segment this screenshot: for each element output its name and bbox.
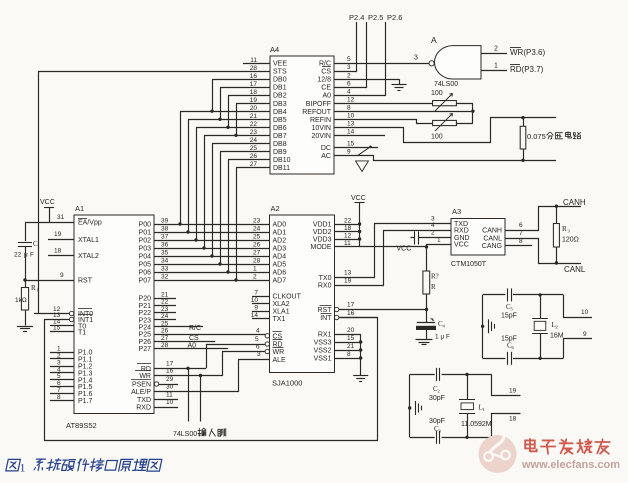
svg-text:R/C: R/C [189, 325, 201, 332]
svg-text:3: 3 [257, 351, 261, 358]
svg-text:35: 35 [161, 250, 169, 257]
svg-text:19: 19 [54, 231, 62, 238]
svg-text:DB9: DB9 [273, 149, 287, 156]
svg-text:30pF: 30pF [429, 395, 445, 402]
svg-text:1kΩ: 1kΩ [15, 297, 27, 304]
svg-text:13: 13 [347, 120, 355, 127]
svg-text:A4: A4 [270, 45, 279, 54]
svg-text:VSS1: VSS1 [314, 356, 332, 363]
svg-text:22: 22 [14, 252, 22, 259]
svg-text:24: 24 [253, 226, 261, 233]
svg-text:21: 21 [161, 292, 169, 299]
svg-text:VDD3: VDD3 [313, 237, 332, 244]
svg-text:P1.1: P1.1 [78, 357, 93, 364]
svg-text:27: 27 [253, 250, 261, 257]
svg-text:XTAL2: XTAL2 [78, 253, 99, 260]
svg-text:VEE: VEE [273, 61, 287, 68]
svg-text:22: 22 [161, 299, 169, 306]
svg-text:DB11: DB11 [273, 165, 290, 172]
svg-text:VSS3: VSS3 [314, 340, 332, 347]
svg-text:P2.4: P2.4 [349, 13, 364, 22]
svg-text:29: 29 [166, 376, 174, 383]
svg-text:4: 4 [256, 328, 260, 335]
svg-text:CS: CS [321, 69, 331, 76]
svg-text:6: 6 [256, 343, 260, 350]
svg-text:18: 18 [509, 416, 517, 423]
svg-text:VDD1: VDD1 [313, 222, 332, 229]
svg-text:XLA2: XLA2 [273, 301, 290, 308]
svg-text:20VIN: 20VIN [312, 133, 331, 140]
svg-text:16M: 16M [550, 333, 564, 340]
svg-text:38: 38 [161, 226, 169, 233]
svg-text:STS: STS [273, 69, 287, 76]
svg-text:100: 100 [431, 134, 443, 141]
svg-text:T1: T1 [78, 329, 86, 336]
svg-text:VCC: VCC [351, 195, 366, 202]
svg-text:17: 17 [166, 360, 174, 367]
svg-text:100: 100 [431, 90, 443, 97]
svg-text:VCC: VCC [454, 242, 469, 249]
svg-text:DB7: DB7 [273, 133, 287, 140]
svg-text:9: 9 [347, 149, 351, 156]
svg-text:AD0: AD0 [273, 222, 287, 229]
svg-text:34: 34 [161, 258, 169, 265]
svg-text:32: 32 [161, 274, 169, 281]
svg-text:μ: μ [441, 334, 445, 341]
svg-text:18: 18 [250, 89, 258, 96]
svg-text:P05: P05 [139, 262, 152, 269]
svg-text:DC: DC [321, 145, 331, 152]
svg-text:8: 8 [57, 394, 61, 401]
svg-text:11: 11 [344, 240, 351, 247]
svg-text:TX0: TX0 [319, 275, 332, 282]
svg-text:R: R [31, 284, 36, 292]
svg-text:P23: P23 [139, 317, 152, 324]
svg-text:14: 14 [251, 312, 259, 319]
svg-text:AT89S52: AT89S52 [66, 421, 97, 430]
svg-text:P20: P20 [139, 296, 152, 303]
svg-text:CTM1050T: CTM1050T [451, 261, 487, 268]
svg-text:2: 2 [347, 72, 351, 79]
svg-text:DB2: DB2 [273, 93, 287, 100]
svg-text:DB1: DB1 [273, 85, 287, 92]
svg-text:CANL: CANL [564, 265, 586, 274]
svg-text:AD6: AD6 [273, 270, 287, 277]
svg-text:74LS00: 74LS00 [173, 431, 197, 438]
svg-text:1: 1 [38, 244, 40, 249]
svg-text:ALE/P: ALE/P [131, 389, 151, 396]
svg-text:TXD: TXD [137, 397, 151, 404]
svg-text:33: 33 [161, 266, 169, 273]
svg-text:P26: P26 [139, 339, 152, 346]
svg-text:MODE: MODE [311, 244, 332, 251]
svg-text:8: 8 [347, 351, 351, 358]
svg-text:A1: A1 [75, 204, 84, 213]
svg-text:19: 19 [250, 97, 258, 104]
svg-text:28: 28 [250, 65, 258, 72]
svg-text:23: 23 [161, 306, 169, 313]
svg-text:9: 9 [583, 331, 587, 338]
svg-text:7: 7 [254, 290, 258, 297]
svg-text:P04: P04 [139, 254, 152, 261]
svg-text:36: 36 [161, 242, 169, 249]
svg-text:19: 19 [509, 388, 517, 395]
svg-text:120Ω: 120Ω [562, 237, 579, 244]
svg-text:DB5: DB5 [273, 117, 287, 124]
svg-text:WR: WR [139, 373, 151, 380]
svg-text:RD(P3.7): RD(P3.7) [510, 65, 544, 74]
svg-text:6: 6 [347, 80, 351, 87]
svg-text:A0: A0 [322, 93, 331, 100]
svg-text:RST: RST [318, 307, 333, 314]
svg-text:INT: INT [320, 315, 332, 322]
svg-text:18: 18 [54, 248, 62, 255]
svg-text:9: 9 [254, 305, 258, 312]
svg-text:31: 31 [57, 214, 65, 221]
svg-text:12: 12 [344, 233, 352, 240]
svg-text:1: 1 [253, 266, 257, 273]
svg-text:AD1: AD1 [273, 230, 287, 237]
svg-text:A: A [431, 35, 437, 45]
svg-text:22: 22 [344, 218, 352, 225]
svg-text:39: 39 [161, 218, 169, 225]
svg-text:16: 16 [347, 310, 355, 317]
svg-text:12/8: 12/8 [317, 77, 331, 84]
svg-text:P27: P27 [139, 346, 152, 353]
svg-text:ALE: ALE [273, 357, 287, 364]
svg-text:14: 14 [347, 128, 355, 135]
svg-text:1: 1 [435, 334, 439, 341]
svg-text:F: F [446, 334, 450, 341]
svg-text:P2.5: P2.5 [368, 13, 383, 22]
svg-text:CANG: CANG [482, 243, 502, 250]
svg-text:5: 5 [347, 56, 351, 63]
svg-text:WR(P3.6): WR(P3.6) [510, 48, 545, 57]
svg-text:AD4: AD4 [273, 254, 287, 261]
svg-text:P24: P24 [139, 325, 152, 332]
svg-text:17: 17 [347, 302, 355, 309]
svg-text:27: 27 [161, 335, 169, 342]
svg-text:P01: P01 [139, 230, 152, 237]
svg-text:6: 6 [519, 222, 523, 229]
svg-text:P2.6: P2.6 [387, 13, 402, 22]
svg-text:XTAL1: XTAL1 [78, 237, 99, 244]
svg-text:23: 23 [253, 218, 261, 225]
svg-text:20: 20 [347, 327, 355, 334]
svg-text:1: 1 [494, 63, 498, 70]
svg-text:P07: P07 [139, 278, 152, 285]
svg-text:18: 18 [344, 225, 352, 232]
svg-text:BIPOFF: BIPOFF [306, 101, 331, 108]
svg-text:AD2: AD2 [273, 238, 287, 245]
svg-text:P21: P21 [139, 303, 152, 310]
svg-text:30pF: 30pF [429, 418, 445, 425]
svg-text:R: R [431, 283, 436, 291]
svg-text:1: 1 [20, 461, 26, 475]
svg-text:3: 3 [347, 64, 351, 71]
svg-text:4: 4 [431, 222, 435, 229]
svg-text:R?: R? [431, 273, 439, 281]
svg-text:74LS00: 74LS00 [434, 81, 458, 88]
svg-text:CANL: CANL [483, 236, 502, 243]
svg-text:10: 10 [347, 112, 355, 119]
svg-text:4: 4 [347, 88, 351, 95]
svg-text:17: 17 [250, 81, 258, 88]
svg-text:DB6: DB6 [273, 125, 287, 132]
svg-text:AC: AC [321, 153, 331, 160]
svg-text:P00: P00 [139, 222, 152, 229]
svg-text:26: 26 [161, 328, 169, 335]
svg-text:28: 28 [253, 258, 261, 265]
svg-text:15: 15 [347, 141, 355, 148]
svg-text:2: 2 [431, 230, 435, 237]
svg-text:P25: P25 [139, 332, 152, 339]
svg-text:CE: CE [321, 85, 331, 92]
svg-text:P22: P22 [139, 310, 152, 317]
svg-text:TX1: TX1 [273, 316, 286, 323]
svg-text:DB8: DB8 [273, 141, 287, 148]
svg-text:2: 2 [253, 274, 257, 281]
svg-text:VDD2: VDD2 [313, 229, 332, 236]
svg-text:0.075: 0.075 [527, 132, 546, 141]
svg-text:WR: WR [273, 349, 285, 356]
svg-text:RST: RST [78, 278, 93, 285]
svg-text:2: 2 [438, 389, 440, 394]
svg-text:25: 25 [253, 234, 261, 241]
svg-text:1: 1 [483, 407, 485, 412]
svg-text:XLA1: XLA1 [273, 309, 290, 316]
svg-text:15: 15 [347, 335, 355, 342]
svg-text:DB10: DB10 [273, 157, 291, 164]
svg-text:1: 1 [37, 288, 39, 293]
svg-text:RXD: RXD [136, 405, 151, 412]
svg-text:P02: P02 [139, 238, 152, 245]
svg-text:REFIN: REFIN [310, 117, 331, 124]
svg-text:RXD: RXD [454, 228, 469, 235]
svg-text:16: 16 [250, 73, 258, 80]
svg-text:CLKOUT: CLKOUT [273, 294, 302, 301]
svg-text:DB3: DB3 [273, 101, 287, 108]
svg-text:DB0: DB0 [273, 77, 287, 84]
svg-text:P06: P06 [139, 270, 152, 277]
svg-text:RD: RD [141, 366, 151, 373]
svg-text:11: 11 [250, 57, 257, 64]
svg-text:RX0: RX0 [318, 283, 332, 290]
svg-text:F: F [30, 252, 34, 259]
svg-text:EA/Vpp: EA/Vpp [78, 220, 102, 227]
svg-text:CANH: CANH [563, 198, 586, 207]
svg-text:11: 11 [166, 392, 173, 399]
svg-text:10VIN: 10VIN [312, 125, 331, 132]
svg-text:2: 2 [556, 325, 558, 330]
svg-text:VCC: VCC [40, 199, 55, 206]
svg-text:AD5: AD5 [273, 262, 287, 269]
svg-text:RX1: RX1 [318, 332, 332, 339]
svg-text:A3: A3 [452, 207, 461, 216]
svg-text:3: 3 [414, 55, 418, 62]
svg-text:R: R [562, 225, 567, 233]
svg-text:21: 21 [347, 343, 355, 350]
svg-text:VSS2: VSS2 [314, 348, 332, 355]
svg-text:REFOUT: REFOUT [302, 109, 332, 116]
svg-text:26: 26 [253, 242, 261, 249]
svg-text:P1.7: P1.7 [78, 398, 93, 405]
svg-text:11.0592M: 11.0592M [461, 421, 492, 428]
svg-text:PSEN: PSEN [132, 382, 151, 389]
svg-text:5: 5 [255, 336, 259, 343]
svg-text:19: 19 [344, 278, 352, 285]
svg-text:DB4: DB4 [273, 109, 287, 116]
svg-text:SJA1000: SJA1000 [272, 379, 302, 388]
svg-text:12: 12 [347, 96, 355, 103]
svg-text:10: 10 [251, 297, 259, 304]
svg-text:2: 2 [494, 46, 498, 53]
svg-text:www.elecfans.com: www.elecfans.com [521, 459, 620, 471]
svg-text:8: 8 [347, 104, 351, 111]
svg-text:VCC: VCC [397, 246, 412, 253]
svg-text:9: 9 [60, 272, 64, 279]
svg-text:AD3: AD3 [273, 246, 287, 253]
svg-text:13: 13 [344, 270, 352, 277]
svg-text:37: 37 [161, 234, 169, 241]
svg-text:AD7: AD7 [273, 278, 287, 285]
svg-text:A2: A2 [271, 204, 280, 213]
svg-text:15pF: 15pF [501, 313, 517, 320]
svg-text:10: 10 [581, 309, 589, 316]
svg-text:P03: P03 [139, 246, 152, 253]
svg-text:CANH: CANH [482, 228, 502, 235]
